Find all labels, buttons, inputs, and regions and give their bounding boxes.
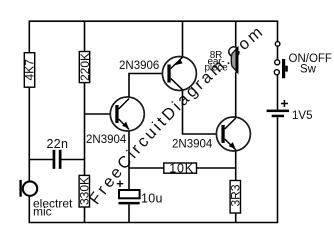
wire top rail <box>29 21 277 53</box>
wire switch to battery <box>277 75 279 110</box>
svg-text:piece: piece <box>205 63 229 74</box>
svg-text:10K: 10K <box>169 161 194 175</box>
wire 10u bottom lead <box>128 205 130 223</box>
svg-text:2N3904: 2N3904 <box>86 134 127 146</box>
resistor 3R3 <box>229 181 243 214</box>
svg-text:220K: 220K <box>78 53 92 81</box>
svg-text:2N3904: 2N3904 <box>172 139 213 151</box>
wire Q3 emitter to 3R3 <box>235 150 237 181</box>
wire 22n left lead <box>29 159 52 161</box>
battery 1V5 <box>267 100 313 122</box>
wire Q2 collector to Q3 base <box>183 90 222 134</box>
resistor 330K <box>78 175 92 207</box>
capacitor plus sign <box>117 181 123 188</box>
wire left rail mid (4K7 bottom to mic top) <box>28 87 30 181</box>
wire Q1 emitter down to 10u <box>128 130 130 191</box>
transistor Q1 2N3904 <box>86 97 144 146</box>
svg-text:330K: 330K <box>78 177 92 205</box>
svg-text:2N3906: 2N3906 <box>119 60 159 72</box>
resistor 4K7 <box>23 53 37 87</box>
battery plus sign <box>281 100 288 107</box>
svg-text:3R3: 3R3 <box>229 184 243 206</box>
svg-text:Sw: Sw <box>300 64 317 76</box>
svg-text:4K7: 4K7 <box>23 59 37 81</box>
earpiece 8R <box>205 47 239 73</box>
wire switch lever <box>277 46 279 60</box>
wire 330K bottom lead <box>84 207 86 223</box>
resistor 10K <box>164 161 197 175</box>
transistor Q2 2N3906 <box>119 57 196 91</box>
switch ON/OFF Sw <box>274 42 332 79</box>
watermark FreeCircuitDiagram.Com <box>97 37 260 206</box>
resistor 220K <box>78 52 92 83</box>
svg-text:22n: 22n <box>47 137 69 151</box>
wire Q2 emitter to top rail <box>182 21 184 57</box>
capacitor 22n <box>47 137 69 169</box>
svg-text:10u: 10u <box>141 191 163 205</box>
wire Q1 base <box>85 113 116 115</box>
wire 220K top lead <box>84 21 86 51</box>
wire 10K right lead <box>197 167 236 169</box>
svg-text:mic: mic <box>33 205 52 219</box>
wire earpiece top lead <box>235 21 237 47</box>
wire earpiece to Q3 collector <box>235 73 237 119</box>
capacitor C 10u electrolytic <box>117 181 163 206</box>
wire 22n right lead <box>62 159 85 161</box>
electret mic <box>19 180 73 219</box>
wire 3R3 bottom lead <box>235 213 237 223</box>
wire 10K left lead <box>129 167 164 169</box>
transistor Q3 2N3904 <box>172 117 250 151</box>
wire 220K bottom to 330K top <box>84 83 86 176</box>
svg-text:1V5: 1V5 <box>292 110 312 122</box>
wire bottom rail <box>29 117 277 222</box>
wire Q1 collector to Q2 base <box>129 74 167 99</box>
